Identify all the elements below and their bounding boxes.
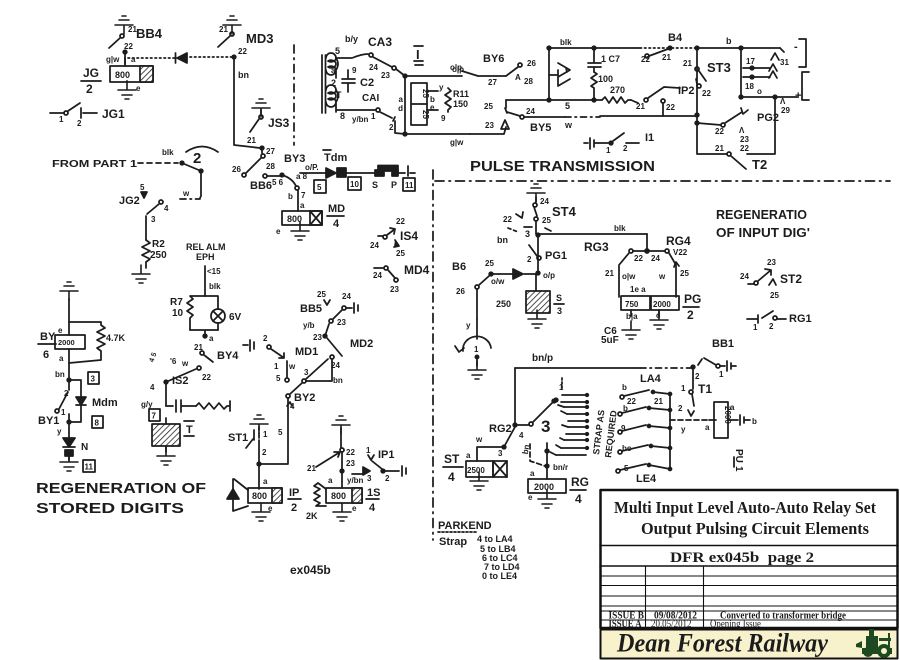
svg-text:RG: RG <box>571 475 589 489</box>
svg-text:b: b <box>752 417 757 426</box>
svg-text:b: b <box>288 192 293 201</box>
wire mid rail <box>506 98 602 111</box>
svg-text:24: 24 <box>373 271 382 280</box>
svg-text:100: 100 <box>598 74 613 84</box>
svg-text:RG1: RG1 <box>789 313 812 325</box>
svg-text:27: 27 <box>488 78 497 87</box>
diode N <box>57 420 88 453</box>
diode Tdm <box>326 168 336 178</box>
svg-text:w: w <box>564 120 573 130</box>
node JS3/MD3 junction <box>260 146 275 156</box>
svg-text:5: 5 <box>276 374 281 383</box>
capacitor C7 <box>588 48 620 72</box>
svg-text:4: 4 <box>448 470 455 484</box>
svg-text:EPH: EPH <box>196 252 215 262</box>
black block 1 <box>337 168 346 177</box>
svg-text:22: 22 <box>503 215 512 224</box>
svg-text:2: 2 <box>77 119 82 128</box>
contact CA3 24/23 <box>336 53 405 80</box>
svg-text:e: e <box>528 493 533 502</box>
label REL ALM EPH <box>186 242 226 262</box>
node IP2 lower <box>695 113 699 125</box>
wire dotted BB4 to diode <box>128 57 176 59</box>
svg-text:R2: R2 <box>152 239 165 250</box>
resistor 2K <box>306 483 326 521</box>
svg-text:REL ALM: REL ALM <box>186 242 226 252</box>
svg-text:4: 4 <box>369 502 376 514</box>
contact BB1 <box>691 358 736 381</box>
svg-text:22: 22 <box>202 373 211 382</box>
svg-text:y: y <box>57 427 62 436</box>
node ST4 out / wire blk to RG <box>536 224 647 237</box>
svg-text:BB1: BB1 <box>712 338 734 350</box>
svg-text:y: y <box>681 425 686 434</box>
resistor 100 <box>591 72 613 100</box>
ground top of BY6 column <box>60 282 78 300</box>
contact RG1 <box>747 311 812 332</box>
svg-text:25: 25 <box>485 259 494 268</box>
svg-text:a: a <box>730 403 735 412</box>
relay coil IS/4 800 <box>326 487 380 514</box>
svg-text:750: 750 <box>625 300 639 309</box>
banner Dean Forest Railway <box>601 629 898 659</box>
boxed 10 <box>348 177 361 190</box>
rule under titles <box>600 545 898 547</box>
svg-text:24: 24 <box>740 272 749 281</box>
contact BY6 <box>450 53 536 87</box>
contact IP2 P22 <box>696 79 711 98</box>
svg-text:800: 800 <box>115 70 130 80</box>
strap selector 3 <box>541 378 564 436</box>
contact MD3 <box>218 31 273 56</box>
svg-text:2500: 2500 <box>467 466 485 475</box>
svg-text:2: 2 <box>623 144 628 153</box>
transformer secondary winding <box>326 85 338 112</box>
svg-text:5 6: 5 6 <box>272 178 284 187</box>
svg-text:Multi Input Level Auto-Auto Re: Multi Input Level Auto-Auto Relay Set <box>614 498 876 517</box>
ground above ST4 <box>527 184 549 206</box>
svg-text:8: 8 <box>340 111 345 121</box>
svg-text:1: 1 <box>681 384 686 393</box>
svg-text:4: 4 <box>519 431 524 440</box>
svg-text:22: 22 <box>346 448 355 457</box>
svg-text:PARKEND: PARKEND <box>438 520 492 532</box>
hatched box T <box>152 418 194 452</box>
svg-text:5: 5 <box>140 183 145 192</box>
svg-text:b/y: b/y <box>345 34 358 44</box>
svg-text:S: S <box>556 293 562 303</box>
svg-text:Λ: Λ <box>739 126 745 135</box>
svg-text:23: 23 <box>337 318 346 327</box>
logo traction engine <box>856 629 892 658</box>
contact IS4 22 <box>307 428 355 488</box>
svg-text:5: 5 <box>278 428 283 437</box>
node g/w bottom <box>403 132 470 147</box>
svg-text:b|a: b|a <box>626 312 638 321</box>
svg-text:1: 1 <box>753 323 758 332</box>
diode D1 <box>176 53 188 63</box>
svg-text:V22: V22 <box>673 248 688 257</box>
svg-text:blk: blk <box>209 282 221 291</box>
svg-text:IS2: IS2 <box>172 375 189 387</box>
svg-text:blk: blk <box>614 224 626 233</box>
svg-text:o/p: o/p <box>543 271 555 280</box>
svg-text:3: 3 <box>91 375 96 384</box>
svg-text:6: 6 <box>43 349 49 361</box>
svg-text:MD3: MD3 <box>246 31 273 46</box>
svg-text:5: 5 <box>335 46 340 56</box>
svg-text:a: a <box>399 95 404 104</box>
svg-text:CAI: CAI <box>362 93 379 104</box>
svg-text:JG: JG <box>83 66 99 80</box>
contact LA4 row1 <box>620 383 670 406</box>
contact JS3 <box>247 110 290 145</box>
svg-text:b: b <box>726 36 732 46</box>
contact BB5 <box>300 290 358 330</box>
svg-text:I1: I1 <box>645 132 654 144</box>
contact IS2 <box>148 352 211 392</box>
svg-text:24: 24 <box>369 63 378 72</box>
svg-text:5: 5 <box>565 101 570 111</box>
svg-text:<15: <15 <box>207 267 221 276</box>
boxed 8 <box>92 416 103 428</box>
ground below IS/4 <box>333 503 357 521</box>
svg-text:BY5: BY5 <box>530 122 551 134</box>
transistor pair <box>549 48 570 100</box>
contact BB4 <box>109 26 163 51</box>
node bn/r <box>530 443 568 479</box>
svg-text:BB4: BB4 <box>136 26 163 41</box>
svg-text:w: w <box>181 359 189 368</box>
svg-text:21: 21 <box>247 136 256 145</box>
svg-text:1: 1 <box>474 345 479 354</box>
svg-text:e: e <box>276 227 281 236</box>
svg-text:a: a <box>466 451 471 460</box>
label Strap list <box>439 534 520 581</box>
ground below dial <box>468 361 486 379</box>
svg-text:22: 22 <box>702 89 711 98</box>
svg-text:1: 1 <box>733 466 744 472</box>
svg-text:Tdm: Tdm <box>324 152 347 164</box>
svg-text:a: a <box>328 476 333 485</box>
svg-text:1: 1 <box>59 115 64 124</box>
svg-text:ST4: ST4 <box>552 204 577 219</box>
svg-text:800: 800 <box>331 491 346 501</box>
svg-text:RG3: RG3 <box>584 240 609 254</box>
svg-text:2: 2 <box>64 389 69 398</box>
svg-text:PG1: PG1 <box>545 250 567 262</box>
node o / plus rail <box>739 87 801 102</box>
node o/p top <box>403 65 464 78</box>
svg-text:o|w: o|w <box>622 272 636 281</box>
svg-text:22: 22 <box>238 47 247 56</box>
relay coil PU/1 2000 <box>714 402 757 472</box>
svg-text:25: 25 <box>317 290 326 299</box>
switch JG1 <box>50 103 125 128</box>
svg-text:1: 1 <box>371 112 376 121</box>
wire blk top rail <box>547 38 668 50</box>
svg-text:2: 2 <box>291 502 297 514</box>
relay coil JG/2 <box>81 58 153 96</box>
svg-text:y/bn: y/bn <box>352 115 369 124</box>
boxed 5 <box>314 180 326 193</box>
contact T1 <box>678 368 712 416</box>
svg-text:JS3: JS3 <box>268 116 290 130</box>
svg-text:ST2: ST2 <box>780 272 802 286</box>
svg-text:2: 2 <box>678 404 683 413</box>
svg-text:25: 25 <box>770 291 779 300</box>
svg-text:1: 1 <box>263 430 268 439</box>
svg-text:C2: C2 <box>360 77 374 89</box>
battery ST1 <box>228 427 268 457</box>
ground below JG/2 coil <box>118 81 141 99</box>
svg-text:0 to LE4: 0 to LE4 <box>482 571 517 581</box>
svg-text:w: w <box>658 272 666 281</box>
svg-text:BY: BY <box>40 331 56 343</box>
svg-text:23: 23 <box>346 459 355 468</box>
svg-text:a: a <box>59 354 64 363</box>
svg-text:5: 5 <box>317 183 322 192</box>
svg-text:a: a <box>530 469 535 478</box>
svg-text:1: 1 <box>274 362 279 371</box>
svg-text:ST1: ST1 <box>228 432 248 444</box>
relay coil MD/4 800 <box>276 203 345 236</box>
resistor 270 <box>602 85 631 103</box>
contact B4 <box>641 32 697 64</box>
node 2 entry <box>180 147 218 168</box>
bridge wires right <box>427 83 444 112</box>
labels b a c below coils <box>626 310 661 321</box>
svg-text:22: 22 <box>666 103 675 112</box>
svg-text:CA3: CA3 <box>368 35 392 49</box>
svg-text:R11: R11 <box>453 89 469 99</box>
svg-text:24: 24 <box>342 292 351 301</box>
node a below lamp <box>190 330 218 343</box>
wire dotted diode to MD3 <box>190 56 232 58</box>
svg-text:y/bn: y/bn <box>347 476 364 485</box>
svg-text:22: 22 <box>627 397 636 406</box>
svg-text:3: 3 <box>151 215 156 224</box>
relay coil S/3 <box>496 275 564 316</box>
label T CAI <box>336 90 379 124</box>
wire 15 blk <box>205 266 221 296</box>
wire entry to JG2 <box>180 163 203 199</box>
svg-text:T2: T2 <box>752 157 767 172</box>
contact MD1 battery <box>243 334 318 358</box>
svg-text:N: N <box>81 442 88 453</box>
svg-text:blk: blk <box>560 38 572 47</box>
contact IS4 <box>370 217 418 258</box>
svg-text:g|w: g|w <box>106 55 120 64</box>
contact RG3 <box>605 249 643 297</box>
svg-text:9: 9 <box>441 114 446 123</box>
svg-text:24: 24 <box>540 197 549 206</box>
svg-text:2: 2 <box>262 448 267 457</box>
svg-text:21: 21 <box>307 464 316 473</box>
svg-text:2: 2 <box>695 372 700 381</box>
svg-text:23: 23 <box>390 285 399 294</box>
svg-text:R7: R7 <box>170 297 183 308</box>
svg-text:MD1: MD1 <box>295 346 318 358</box>
wire bn from MD3 down to JS3 <box>232 55 260 148</box>
rule under doc number <box>600 565 898 567</box>
svg-text:10: 10 <box>172 308 184 319</box>
label S P <box>372 180 397 190</box>
svg-text:Strap: Strap <box>439 536 467 548</box>
svg-text:MD: MD <box>328 203 345 215</box>
svg-text:'6: '6 <box>170 357 177 366</box>
wire dashed from-part-1 <box>138 148 178 163</box>
svg-text:29: 29 <box>781 106 790 115</box>
wire down to BY coil <box>68 299 70 322</box>
svg-text:22: 22 <box>715 127 724 136</box>
svg-text:a: a <box>705 423 710 432</box>
svg-text:25: 25 <box>396 249 405 258</box>
wire IS2 down <box>141 382 166 409</box>
svg-text:y: y <box>466 321 471 330</box>
svg-text:800: 800 <box>252 491 267 501</box>
node bn <box>55 370 71 382</box>
svg-text:e: e <box>58 326 63 335</box>
boxed 3 <box>88 372 99 384</box>
black block 2 with bar <box>375 166 415 177</box>
svg-text:7: 7 <box>301 191 306 200</box>
svg-text:24: 24 <box>526 107 535 116</box>
svg-text:2: 2 <box>193 150 201 167</box>
contact BB6 <box>250 162 284 192</box>
contact PG1 <box>527 235 567 273</box>
svg-text:bn: bn <box>238 70 249 80</box>
svg-text:25: 25 <box>542 216 551 225</box>
capacitor C2 <box>331 66 374 92</box>
svg-text:26: 26 <box>232 165 241 174</box>
contact MD4 <box>373 263 430 294</box>
svg-text:o|p: o|p <box>450 63 462 72</box>
contact ST4 <box>533 197 577 219</box>
wire top rail to minus <box>695 36 784 52</box>
svg-text:25: 25 <box>680 269 689 278</box>
ground below 2500 <box>470 472 488 490</box>
svg-text:PG: PG <box>684 292 701 306</box>
svg-text:MD4: MD4 <box>404 263 430 277</box>
svg-text:1e a: 1e a <box>630 285 646 294</box>
svg-text:e: e <box>430 103 435 112</box>
svg-text:250: 250 <box>496 299 511 309</box>
contact MD1 lower <box>274 361 296 383</box>
contact ST4 22/25 <box>497 212 551 245</box>
svg-text:250: 250 <box>150 250 167 261</box>
svg-text:LE4: LE4 <box>636 473 657 485</box>
svg-text:25: 25 <box>484 102 493 111</box>
svg-text:w: w <box>475 435 483 444</box>
svg-text:DFR ex045b page 2: DFR ex045b page 2 <box>670 550 814 566</box>
svg-text:9: 9 <box>352 66 357 75</box>
label PARKEND <box>438 520 492 532</box>
svg-text:23: 23 <box>485 121 494 130</box>
contact CAI 1/2 <box>336 108 405 134</box>
wire o/P row <box>296 163 326 181</box>
svg-text:5uF: 5uF <box>601 335 619 346</box>
table column rules <box>646 566 704 628</box>
label Tdm <box>323 150 347 164</box>
svg-text:2: 2 <box>86 82 93 96</box>
svg-text:a: a <box>300 201 305 210</box>
svg-text:REGENERATION OF: REGENERATION OF <box>36 480 206 497</box>
svg-text:BB6: BB6 <box>250 180 272 192</box>
contact JG2 <box>119 183 169 224</box>
svg-text:4.7K: 4.7K <box>106 333 126 343</box>
contact MD2 <box>313 324 373 356</box>
svg-text:IP1: IP1 <box>378 449 395 461</box>
wire JG2 to R2 <box>145 216 147 240</box>
ground above ST1 <box>250 415 268 433</box>
svg-text:2: 2 <box>389 123 394 132</box>
svg-text:10: 10 <box>350 180 359 189</box>
ground above JS3 <box>252 99 270 117</box>
wire y a to PU1 <box>670 420 716 434</box>
svg-text:22: 22 <box>641 55 650 64</box>
svg-text:28: 28 <box>266 162 275 171</box>
svg-text:2: 2 <box>263 334 268 343</box>
wire lower rail to IP2 <box>524 116 697 117</box>
contact RG4 <box>651 234 691 297</box>
svg-text:B4: B4 <box>668 32 683 44</box>
svg-text:d: d <box>398 104 403 113</box>
label 5 / blk/y / CA3 <box>335 34 392 56</box>
svg-text:22: 22 <box>740 144 749 153</box>
svg-text:b: b <box>622 383 627 392</box>
contact B6 <box>452 259 505 330</box>
svg-text:IP: IP <box>289 487 299 499</box>
symbol I with underline <box>414 46 423 65</box>
svg-text:JG2: JG2 <box>119 195 140 207</box>
svg-text:ST3: ST3 <box>707 60 731 75</box>
svg-text:BY2: BY2 <box>294 392 315 404</box>
svg-text:270: 270 <box>610 85 625 95</box>
svg-text:31: 31 <box>780 58 789 67</box>
resistor R7 10 <box>170 296 205 330</box>
svg-text:BY4: BY4 <box>217 350 239 362</box>
svg-text:REGENERATIO: REGENERATIO <box>716 208 807 222</box>
svg-text:3: 3 <box>304 368 309 377</box>
svg-text:S: S <box>372 180 378 190</box>
svg-text:Λ: Λ <box>780 97 786 106</box>
svg-text:2: 2 <box>331 78 336 88</box>
ground above IS4 <box>332 416 350 434</box>
svg-text:7: 7 <box>152 412 157 421</box>
svg-text:T: T <box>186 424 193 436</box>
svg-text:1: 1 <box>606 146 611 155</box>
contact MD1 3/24 <box>302 355 343 385</box>
svg-text:I: I <box>416 47 420 62</box>
bracket plus terminal <box>780 72 809 115</box>
svg-text:22: 22 <box>634 254 643 263</box>
svg-text:2: 2 <box>385 474 390 483</box>
svg-text:e: e <box>136 84 141 93</box>
contact IP1 <box>366 446 406 483</box>
svg-text:4: 4 <box>333 218 340 230</box>
ground bottom BY1 <box>60 453 78 471</box>
dial circle <box>455 319 491 366</box>
svg-text:21: 21 <box>219 25 228 34</box>
svg-text:STORED DIGITS: STORED DIGITS <box>36 500 184 517</box>
resistor 4.7K parallel <box>69 322 126 363</box>
svg-text:3: 3 <box>541 417 550 436</box>
svg-text:150: 150 <box>453 99 468 109</box>
ground above MD3 <box>219 16 241 34</box>
contact BY2 <box>278 383 315 463</box>
svg-text:w: w <box>182 189 190 198</box>
